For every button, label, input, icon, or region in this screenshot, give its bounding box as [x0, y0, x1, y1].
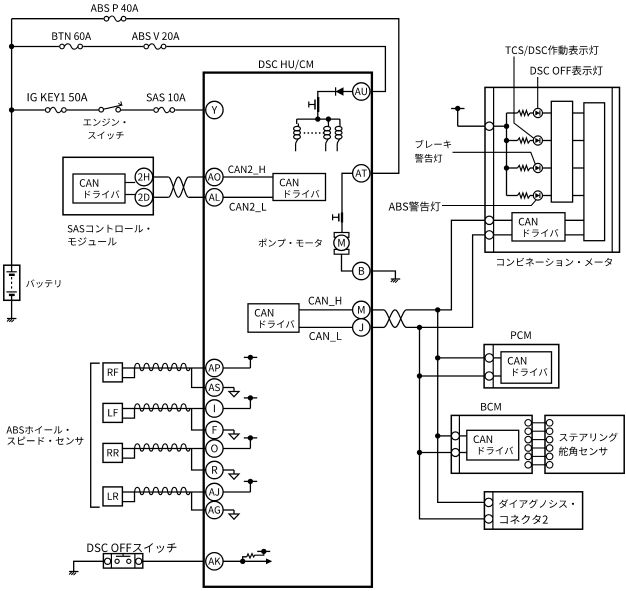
wire block1 to block2 row [573, 167, 584, 169]
CAN driver U4 in combination meter [512, 213, 565, 241]
CAN driver U5 in PCM [501, 352, 552, 383]
node junction BCM CAN_H [435, 433, 440, 438]
sensor coil LR [135, 487, 191, 494]
node junction PCM CAN_H [435, 355, 440, 360]
combination meter box (コンビネーション・メータ) [485, 87, 620, 252]
wire sensor LR leads [122, 491, 134, 493]
LED brake warning lamp [533, 163, 542, 172]
switch contacts [115, 559, 119, 563]
pin M [353, 301, 370, 318]
wire sensor RR leads [122, 448, 134, 450]
dotted continuation between solenoids [304, 132, 306, 134]
pin O [206, 440, 223, 457]
ground reference at pin R [223, 469, 234, 471]
steering angle sensor box (ステアリング舵角センサ) [545, 415, 624, 473]
pin AJ [206, 483, 223, 500]
BCM to steering angle sensor connector rows [532, 422, 547, 424]
pin AO [206, 168, 223, 185]
label ABS wheel speed sensors (ABSホイール・スピード・センサ) [6, 426, 68, 434]
label ブレーキ警告灯 with pointer [416, 140, 451, 149]
sensor coil RF [135, 363, 191, 370]
node junction W3 on left bus [9, 107, 14, 112]
wire CAN_H bus down to diagnosis connector [438, 310, 485, 503]
pin AT [353, 165, 370, 182]
meter internal block 1 [551, 101, 572, 202]
node junction CAN_L bus [417, 325, 422, 330]
label CAN_L [309, 332, 341, 342]
wire left supply bus from W1 down to battery [11, 19, 13, 272]
label DSC OFF表示灯 with pointer [531, 66, 603, 76]
node junction PCM CAN_L [417, 373, 422, 378]
node junction BCM CAN_L [417, 450, 422, 455]
wire block1 to block2 row [573, 195, 584, 197]
wire W3 ignition feed (IG KEY1 / SAS 10A) to pin Y [12, 109, 204, 111]
resistor for DSC OFF indicator lamp [507, 140, 518, 142]
wire DSC OFF indicator lamp to block 1 [543, 140, 552, 142]
meter power feed connector [485, 122, 493, 130]
wire CAN_L bus down to diagnosis connector [420, 327, 485, 519]
power symbol meter feed [457, 109, 459, 127]
SAS control module box (SASコントロール・モジュール) [63, 157, 153, 215]
meter internal block 2 [584, 103, 605, 241]
resistor for TCS/DSC indicator lamp [507, 112, 518, 114]
fuse BTN 60A [59, 43, 83, 51]
bracket grouping wheel speed sensors [91, 363, 100, 507]
CAN driver U3 in DSC (vehicle CAN) [248, 304, 299, 332]
wire to BCM connectors [438, 435, 452, 437]
pin AU [353, 83, 370, 100]
label TCS/DSC作動表示灯 with pointer [505, 45, 598, 55]
wire brake warning lamp to block 1 [543, 167, 552, 169]
PCM connector circles [485, 354, 493, 362]
DSC HU/CM main module box [204, 73, 372, 587]
wire CAN_H pin M to junction and meter [372, 309, 384, 311]
wire battery negative to ground [11, 295, 13, 319]
resistor for ABS warning lamp [507, 195, 518, 197]
pin Y [206, 101, 223, 118]
pin B [353, 262, 370, 279]
pin 2H of SAS module [135, 168, 153, 186]
meter CAN connector circles [485, 216, 493, 224]
pin I [206, 400, 223, 417]
ground at pin B [391, 278, 400, 280]
ground reference at pin F [223, 429, 234, 431]
transistor Q1 (solenoid driver FET) [317, 97, 319, 112]
power at AK resistor [261, 549, 266, 554]
wire CAN driver to pin M (CAN_H) [299, 309, 353, 311]
pin AL [206, 189, 223, 206]
wheel speed sensor RR [103, 443, 122, 462]
wire W1 battery feed (ABS P 40A) to pin AT [12, 19, 399, 174]
ground reference at pin AG [223, 509, 234, 511]
wire from pin AU to transistor [318, 92, 353, 120]
wire CAN driver to pin J (CAN_L) [299, 326, 353, 328]
wire pin AL to CAN driver (CAN2_L) [223, 196, 273, 198]
wire pin AK internal [223, 560, 266, 562]
diagnosis connector circles [485, 498, 493, 506]
label CAN2_L [230, 203, 267, 212]
wire ABS warning lamp to block 1 [543, 195, 552, 197]
meter lamp supply bus [506, 113, 508, 196]
pump motor M1 (ポンプ・モータ) [334, 233, 349, 238]
wire pin AT to pump motor [342, 173, 353, 232]
pin J [353, 319, 370, 336]
ground battery [7, 318, 16, 320]
wheel speed sensor LF [103, 403, 122, 422]
CAN driver U2 in SAS module [73, 174, 125, 203]
LED DSC OFF indicator lamp [533, 136, 542, 145]
fuse ABS V 20A [143, 43, 166, 51]
label CAN_H [309, 297, 342, 306]
ground reference at pin AS [223, 387, 234, 389]
resistor pull-up at AK [243, 557, 247, 562]
BCM box [451, 415, 532, 473]
wire pin AO to CAN driver (CAN2_H) [223, 176, 273, 178]
wire branch to pin F [192, 409, 206, 431]
power pull-up at pin AJ [223, 491, 250, 493]
arrow continuation at AK [266, 558, 272, 564]
node junction solenoid 2 to bus [326, 116, 331, 121]
node junction lamp row 3 [504, 165, 509, 170]
node junction lamp row 2 [504, 138, 509, 143]
wire CAN2 twisted pair SAS to DSC [153, 176, 169, 178]
wheel speed sensor RF [103, 363, 122, 382]
wire sensor RF leads [122, 367, 134, 369]
wire block1 to block2 row [573, 140, 584, 142]
pin AP [206, 359, 223, 376]
diagnosis connector box (ダイアグノシス・コネクタ2) [484, 492, 582, 529]
ground at DSC OFF switch [69, 571, 78, 573]
wire to PCM connectors [438, 357, 485, 359]
twisted pair CAN_H/CAN_L [384, 310, 407, 328]
CAN driver U1 in DSC (CAN2) [273, 174, 326, 201]
sensor coil LF [135, 404, 191, 411]
wire sensor LF leads [122, 408, 134, 410]
node junction at AK wire [240, 559, 245, 564]
BCM connector circles [451, 432, 459, 440]
transistor Q2 (pump motor FET) [341, 213, 343, 223]
LED TCS/DSC indicator lamp [533, 108, 542, 117]
node junction W2 on left bus [9, 44, 14, 49]
fuse ABS P 40A [103, 15, 126, 23]
fuse SAS 10A [153, 106, 175, 114]
power pull-up at pin O [223, 448, 250, 450]
pin AG [206, 501, 223, 518]
wire W2 feed (BTN 60A / ABS V 20A) to pin AU [12, 47, 386, 92]
node junction transistor to bus [315, 116, 320, 121]
node junction meter feed [504, 124, 509, 129]
pin F [206, 421, 223, 438]
solenoid valve coil L3 [339, 119, 341, 124]
wire pump motor to pin B [342, 254, 353, 271]
sensor coil RR [135, 444, 191, 451]
node junction CAN_H bus [435, 307, 440, 312]
wire TCS/DSC indicator lamp to block 1 [543, 112, 552, 114]
fuse IG KEY1 50A [45, 106, 67, 114]
wheel speed sensor LR [103, 487, 122, 506]
PCM box [484, 345, 559, 388]
battery (バッテリ) [4, 265, 20, 300]
pin 2D of SAS module [135, 189, 153, 207]
wire branch to pin R [192, 449, 206, 471]
power pull-up at pin I [223, 408, 250, 410]
label ABS警告灯 with pointer [389, 202, 441, 212]
DSC OFF switch (DSC OFFスイッチ) [87, 543, 176, 553]
wire block1 to block2 row [573, 112, 584, 114]
solenoid valve coil L1 [296, 119, 298, 124]
wire solenoid supply bus [297, 118, 340, 120]
power pull-up at pin AP [223, 367, 250, 369]
wire branch to pin AG [192, 492, 206, 510]
engine switch (エンジン・スイッチ) [99, 104, 121, 115]
CAN driver U6 in BCM [467, 430, 519, 460]
wire switch to pin AK [143, 560, 204, 562]
wire branch to pin AS [192, 368, 206, 388]
resistor for brake warning lamp [507, 167, 518, 169]
LED ABS warning lamp [533, 191, 542, 200]
wire switch to ground [74, 561, 104, 571]
pin AK [206, 553, 223, 570]
wire pin B to ground [371, 271, 395, 279]
label CAN2_H [228, 166, 264, 175]
pin AS [206, 379, 223, 396]
wire CAN_L pin J to junction and meter [372, 326, 384, 328]
diode D1 [336, 87, 344, 95]
solenoid valve coil L2 [327, 119, 329, 124]
pin R [206, 461, 223, 478]
